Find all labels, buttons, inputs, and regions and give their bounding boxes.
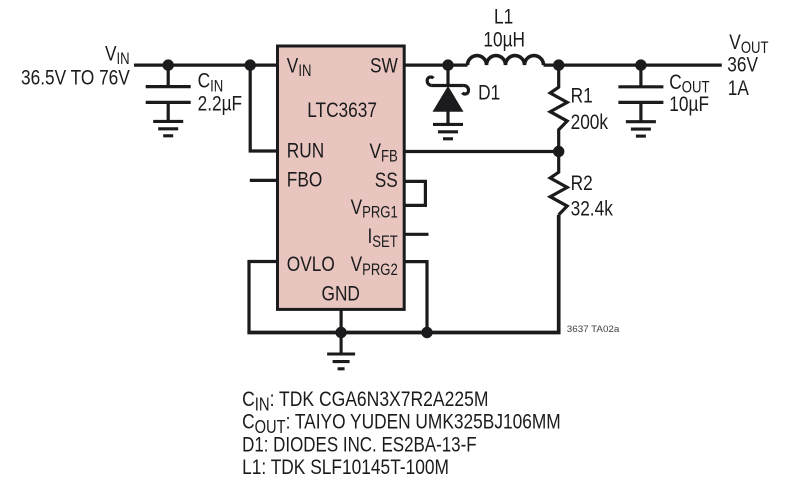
svg-text:32.4k: 32.4k [571, 197, 613, 221]
svg-text:R2: R2 [571, 171, 593, 195]
svg-text:GND: GND [322, 282, 360, 306]
wire FBO stub [250, 179, 277, 182]
node output/R1 [553, 59, 564, 70]
inductor L1 [468, 56, 544, 66]
node CIN tap [163, 59, 174, 70]
svg-text:FBO: FBO [287, 168, 323, 192]
ground D1 [433, 124, 463, 138]
svg-text:D1: DIODES INC. ES2BA-13-F: D1: DIODES INC. ES2BA-13-F [242, 432, 477, 456]
svg-text:L1: TDK SLF10145T-100M: L1: TDK SLF10145T-100M [242, 455, 449, 479]
wire OVLO to ground rail [249, 262, 277, 333]
svg-text:36V: 36V [727, 53, 758, 77]
wire output node to VOUT [544, 63, 722, 66]
svg-text:R1: R1 [571, 84, 593, 108]
svg-text:SW: SW [370, 54, 398, 78]
capacitor CIN [146, 65, 191, 121]
svg-text:10µF: 10µF [669, 92, 709, 116]
svg-text:36.5V TO 76V: 36.5V TO 76V [21, 66, 130, 90]
wire ISET stub [405, 233, 429, 236]
node RUN tap [245, 59, 256, 70]
ground GND pin [327, 333, 355, 369]
svg-text:SS: SS [375, 168, 398, 192]
svg-text:1A: 1A [728, 76, 749, 100]
op-amp U1 LTC3637 body [278, 46, 405, 309]
node feedback [553, 146, 564, 157]
resistor R1 [550, 65, 567, 151]
wire ground rail [247, 215, 558, 333]
svg-text:D1: D1 [478, 81, 500, 105]
wire RUN tap vertical [250, 65, 277, 151]
svg-text:L1: L1 [494, 5, 513, 29]
node D1 tap [442, 59, 453, 70]
node GND [335, 327, 346, 338]
node VPRG2 [421, 327, 432, 338]
svg-text:200k: 200k [571, 110, 609, 134]
svg-text:10µH: 10µH [483, 28, 525, 52]
node COUT tap [635, 59, 646, 70]
svg-text:OVLO: OVLO [287, 252, 335, 276]
ground CIN [153, 121, 183, 135]
svg-text:LTC3637: LTC3637 [307, 98, 377, 122]
wire GND pin stub [340, 310, 343, 333]
wire SS to VPRG1 bracket [405, 181, 426, 205]
ground COUT [626, 122, 656, 136]
svg-text:2.2µF: 2.2µF [198, 92, 243, 116]
capacitor COUT [618, 65, 663, 122]
svg-text:3637 TA02a: 3637 TA02a [567, 323, 620, 334]
wire VPRG2 to ground rail [405, 262, 428, 333]
svg-text:RUN: RUN [287, 139, 324, 163]
diode D1 schottky [427, 65, 468, 124]
wire VFB to feedback node [405, 150, 559, 153]
resistor R2 [550, 152, 567, 215]
wire VIN input [134, 63, 277, 66]
wire SW output [405, 63, 468, 66]
